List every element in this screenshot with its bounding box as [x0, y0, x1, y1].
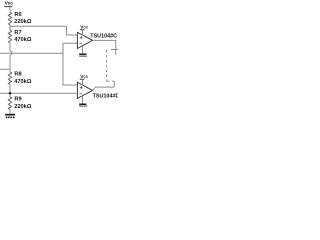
ground (main) [5, 114, 15, 118]
dashed wire [106, 50, 108, 81]
svg-text:−: − [79, 92, 82, 98]
wire Vin line [0, 52, 63, 54]
resistor R7 [8, 30, 12, 43]
junction node C [9, 92, 12, 95]
wire node C to op-amp U2 -in [0, 92, 77, 94]
svg-text:R8: R8 [14, 72, 21, 78]
wire [9, 43, 11, 51]
svg-text:R6: R6 [14, 12, 21, 18]
node Vcc (U1) [80, 25, 89, 36]
resistor R6 [8, 12, 12, 25]
svg-text:VCC: VCC [80, 74, 88, 79]
svg-text:+: + [80, 35, 83, 41]
svg-text:220kΩ: 220kΩ [14, 19, 32, 25]
wire tick crossing output1 [111, 49, 118, 51]
svg-text:470kΩ: 470kΩ [14, 79, 32, 85]
resistor R8 [8, 72, 12, 85]
wire dashed-line bottom tick [107, 81, 115, 87]
svg-text:TSU104#D: TSU104#D [93, 93, 118, 99]
svg-text:−: − [79, 42, 82, 48]
wire mid-node tap [0, 68, 10, 70]
svg-text:VDD: VDD [5, 1, 14, 7]
wire [9, 56, 11, 72]
svg-text:TSU104#C: TSU104#C [90, 33, 117, 39]
op-amp U2 TSU104 (D) [77, 82, 92, 98]
resistor R9 [8, 97, 12, 110]
wire [9, 110, 11, 114]
wire [9, 25, 11, 30]
svg-text:+: + [80, 85, 83, 91]
wire [9, 7, 11, 13]
node Vdd [4, 1, 13, 7]
wire U1 output [93, 40, 116, 54]
ground (U1) [82, 46, 84, 54]
wire node A to op-amp U1 +in [10, 26, 77, 35]
op-amp U1 TSU104 (C) [77, 32, 92, 48]
wire Vin to U1 -in and U2 +in [63, 43, 77, 85]
svg-text:R9: R9 [14, 97, 21, 103]
node Vcc (U2) [80, 74, 89, 85]
wire hop over Vin line [10, 51, 12, 56]
wire U2 output [93, 87, 115, 90]
svg-text:220kΩ: 220kΩ [14, 104, 32, 110]
svg-text:470kΩ: 470kΩ [14, 37, 32, 43]
svg-text:VCC: VCC [80, 25, 88, 30]
wire [9, 85, 11, 97]
svg-text:R7: R7 [14, 30, 21, 36]
ground (U2) [82, 96, 84, 104]
